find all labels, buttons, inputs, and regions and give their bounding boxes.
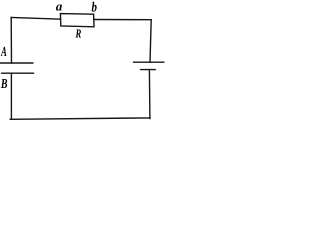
svg-text:a: a [56, 0, 63, 13]
svg-text:B: B [0, 76, 7, 91]
svg-text:A: A [0, 44, 6, 59]
wire bottom [10, 118, 150, 119]
wire left upper [10, 17, 12, 63]
battery long plate (+) [134, 61, 164, 63]
wire right lower [148, 70, 151, 119]
resistor R (box) [60, 14, 94, 27]
capacitor bottom plate (node B) [2, 72, 34, 74]
capacitor top plate (node A) [1, 62, 33, 64]
wire right upper [150, 20, 151, 63]
svg-text:b: b [92, 0, 97, 15]
wire left lower [10, 73, 12, 119]
wire top-right segment [94, 19, 151, 21]
battery short plate (-) [141, 69, 156, 71]
svg-text:R: R [75, 27, 82, 41]
wire top-left segment [11, 17, 60, 19]
